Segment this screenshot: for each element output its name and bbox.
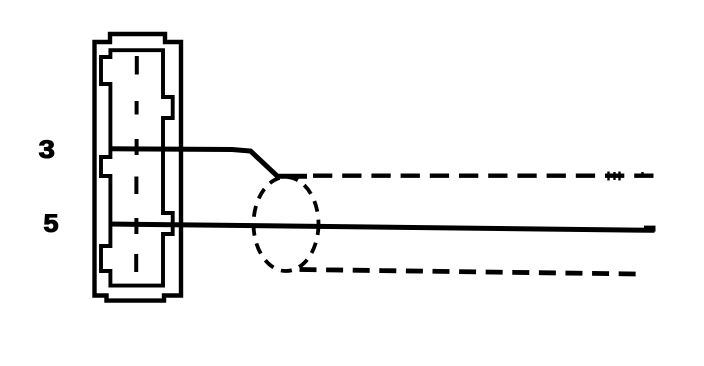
connector centerline (dashed) bbox=[134, 56, 139, 272]
svg-text:3: 3 bbox=[39, 135, 55, 164]
bottom cable boundary (dashed) bbox=[300, 270, 645, 275]
svg-text:5: 5 bbox=[44, 209, 59, 238]
cable bundle ellipse (dashed) bbox=[254, 177, 319, 271]
wire pin 3 (horizontal then diagonal into bundle) bbox=[109, 149, 307, 177]
scan artifact thick end of pin-5 wire bbox=[644, 226, 656, 232]
connector J1 inner body with latch bumps bbox=[101, 50, 173, 285]
connector J1 outer shell bbox=[95, 34, 182, 301]
wire pin 5 (solid, full length) bbox=[109, 224, 655, 230]
wire pin 3 dashed continuation (top cable boundary) bbox=[313, 173, 656, 177]
scan artifact ticks on top boundary bbox=[609, 172, 643, 181]
